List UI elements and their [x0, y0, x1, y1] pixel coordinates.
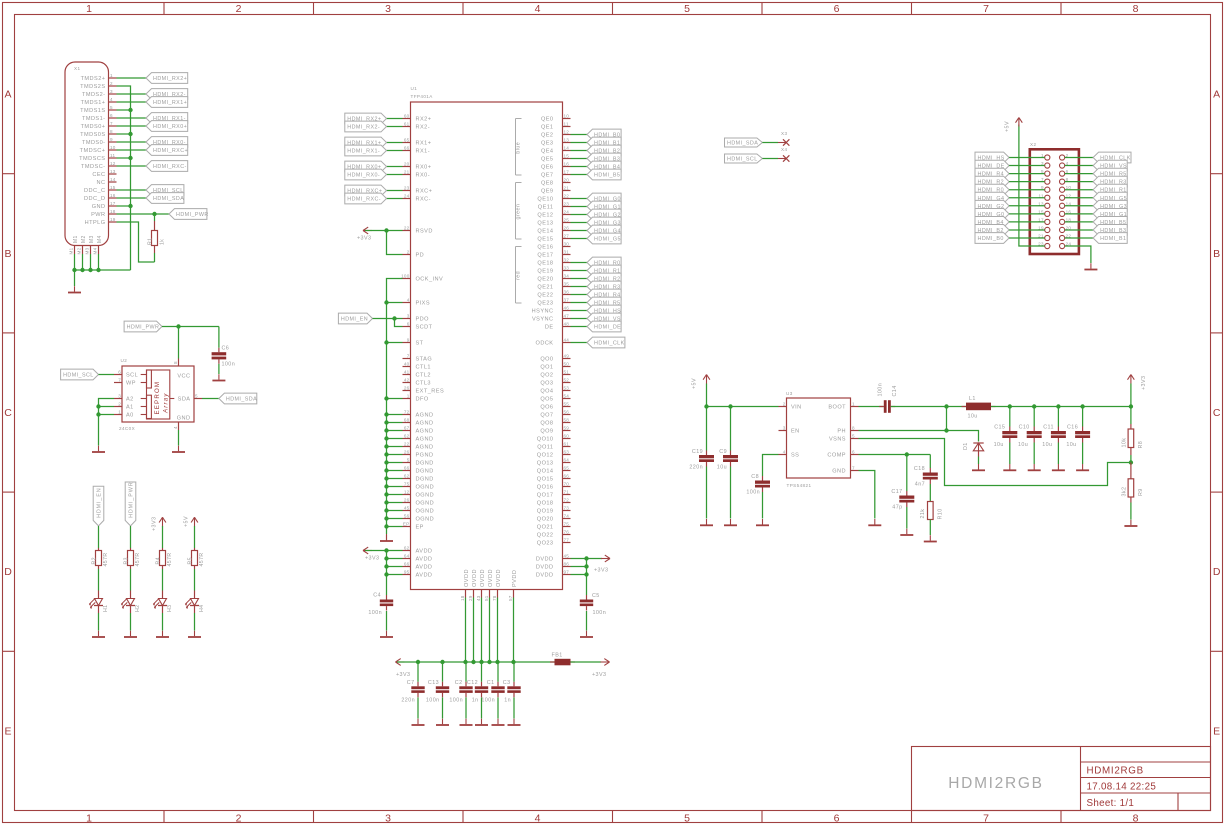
svg-text:1: 1 — [86, 3, 92, 15]
U1 pin 1 DFO — [403, 398, 411, 400]
junction — [1129, 460, 1133, 464]
svg-text:X4: X4 — [781, 147, 787, 152]
U1 pin 23 RXC+ — [403, 190, 411, 192]
+3V3 power arrow — [601, 661, 610, 663]
wire HDMI_RX1- — [117, 117, 147, 119]
svg-text:24: 24 — [404, 194, 410, 199]
wire to +3V3 — [587, 558, 603, 560]
U1 pin 95 AVDD — [403, 574, 411, 576]
ferrite bead FB1 — [550, 661, 555, 663]
X1 pin 17 GND — [109, 205, 117, 207]
wire +3V3 rail — [991, 406, 1131, 408]
junction — [96, 412, 100, 416]
wire HDMI_R1 — [1065, 189, 1093, 191]
svg-text:43: 43 — [476, 595, 481, 601]
junction — [384, 508, 388, 512]
svg-text:C9: C9 — [719, 449, 727, 455]
wire HDMI_RXC- — [387, 198, 403, 200]
net label HDMI_RX0- — [345, 169, 387, 180]
U3 pin 4 SS — [779, 454, 787, 456]
svg-text:7: 7 — [407, 354, 410, 359]
svg-text:DGND: DGND — [416, 477, 434, 483]
wire — [706, 467, 708, 519]
net label HDMI_G0 — [975, 209, 1009, 220]
svg-text:15: 15 — [110, 185, 116, 190]
svg-text:PIXS: PIXS — [416, 301, 431, 307]
wire M1 — [74, 254, 76, 270]
wire — [489, 598, 491, 663]
U1 pin 58 QO8 — [563, 422, 571, 424]
svg-text:5: 5 — [684, 3, 690, 15]
svg-text:C7: C7 — [407, 680, 415, 686]
wire — [906, 455, 908, 492]
wire HDMI_R0 — [1009, 189, 1045, 191]
wire — [1128, 462, 1131, 464]
svg-text:OGND: OGND — [416, 493, 435, 499]
U1 pin 22 AGND — [403, 446, 411, 448]
svg-text:SCL: SCL — [126, 373, 138, 379]
junction — [584, 564, 588, 568]
wire — [387, 486, 403, 488]
svg-text:QE18: QE18 — [537, 261, 553, 267]
wire — [978, 457, 980, 465]
svg-text:SDA: SDA — [178, 397, 191, 403]
wire HDMI_R5 — [571, 302, 588, 304]
wire — [387, 430, 403, 432]
junction — [384, 300, 388, 304]
wire HDMI_RX0+ — [387, 166, 403, 168]
X2 pin 11 pad — [1045, 195, 1050, 200]
+3V3 power arrow — [396, 661, 405, 663]
wire — [1130, 407, 1132, 425]
svg-text:+3V3: +3V3 — [365, 556, 379, 562]
wire HDMI_PWR — [162, 326, 219, 328]
wire HDMI_DE — [1009, 165, 1045, 167]
svg-text:EP: EP — [403, 522, 410, 527]
svg-text:SCDT: SCDT — [416, 325, 433, 331]
X1 pin 3 TMDS2- — [109, 93, 117, 95]
X1 pin 10 TMDSC+ — [109, 149, 117, 151]
junction — [128, 156, 132, 160]
wire HDMI_RX2+ — [387, 118, 403, 120]
wire — [1009, 407, 1011, 427]
wire M4 — [98, 254, 100, 270]
net label HDMI_B3 — [1093, 225, 1127, 236]
X1 pin 6 TMDS1- — [109, 117, 117, 119]
svg-text:66: 66 — [404, 562, 410, 567]
junction — [384, 420, 388, 424]
svg-text:53: 53 — [564, 386, 570, 391]
U1 pin 65 QO14 — [563, 470, 571, 472]
junction — [487, 660, 491, 664]
wire — [513, 662, 515, 682]
wire — [154, 253, 156, 262]
junction — [384, 484, 388, 488]
X1 pin 19 HTPLG — [109, 221, 117, 223]
U1 pin 49 QO0 — [563, 358, 571, 360]
U1 pin 66 AVDD — [403, 566, 411, 568]
svg-text:2: 2 — [110, 81, 113, 86]
svg-text:10u: 10u — [968, 414, 978, 420]
svg-text:R10: R10 — [938, 508, 944, 519]
svg-text:DGND: DGND — [416, 469, 434, 475]
net label HDMI_B4 — [587, 161, 621, 172]
net label HDMI_B2 — [587, 145, 621, 156]
wire HDMI_B2 — [1009, 229, 1045, 231]
wire TMDS0S — [117, 133, 131, 135]
ground H2 — [130, 631, 132, 637]
+5V power arrow — [706, 375, 708, 384]
U1 pin 75 OGND — [403, 486, 411, 488]
wire — [497, 598, 499, 663]
svg-text:B: B — [1213, 248, 1220, 260]
wire HDMI_B5 — [1065, 221, 1093, 223]
svg-text:D1: D1 — [963, 442, 969, 450]
U2 EEPROM array symbol — [147, 370, 170, 419]
wire HDMI_RX1+ — [387, 142, 403, 144]
svg-text:48: 48 — [564, 322, 570, 327]
wire HDMI_B3 — [1065, 229, 1093, 231]
svg-text:100: 100 — [401, 274, 410, 279]
U1 pin 21 QE9 — [563, 190, 571, 192]
svg-text:75: 75 — [404, 482, 410, 487]
wire HDMI_G3 — [571, 222, 588, 224]
junction — [72, 268, 76, 272]
U1 pin 70 QO16 — [563, 486, 571, 488]
X1 pin M3 — [90, 246, 92, 255]
svg-text:17: 17 — [564, 170, 570, 175]
svg-text:HDMI_RXC-: HDMI_RXC- — [153, 164, 187, 170]
wire HDMI_RXC+ — [117, 149, 147, 151]
U1 pin 72 QO18 — [563, 502, 571, 504]
wire HDMI_SDA — [202, 398, 219, 400]
svg-text:AVDD: AVDD — [416, 549, 433, 555]
net label HDMI_B1 — [587, 137, 621, 148]
svg-text:23: 23 — [404, 186, 410, 191]
wire AVDD — [365, 550, 403, 552]
U3 pin 6 COMP — [851, 454, 859, 456]
net label HDMI_R5 — [1093, 168, 1127, 179]
junction — [704, 404, 708, 408]
IC U3 TPS54821 body — [787, 398, 851, 478]
junction — [392, 316, 396, 320]
wire A bus — [99, 399, 115, 446]
svg-text:36: 36 — [564, 290, 570, 295]
svg-text:green: green — [516, 204, 522, 220]
svg-text:QE12: QE12 — [537, 213, 553, 219]
svg-text:76: 76 — [564, 530, 570, 535]
junction — [511, 660, 515, 664]
svg-text:QE1: QE1 — [541, 125, 554, 131]
svg-text:COMP: COMP — [827, 453, 846, 459]
svg-text:QO3: QO3 — [540, 381, 553, 387]
svg-text:66: 66 — [564, 474, 570, 479]
svg-text:+3V3: +3V3 — [592, 672, 606, 678]
junction — [495, 660, 499, 664]
U1 pin 66 RX1- — [403, 150, 411, 152]
svg-text:46: 46 — [564, 306, 570, 311]
ground H3 — [162, 631, 164, 637]
wire — [730, 407, 732, 451]
wire — [99, 406, 115, 408]
wire — [387, 494, 403, 496]
svg-text:RXC+: RXC+ — [416, 189, 433, 195]
svg-text:1: 1 — [110, 73, 113, 78]
svg-text:1: 1 — [852, 402, 855, 407]
svg-text:77: 77 — [564, 538, 570, 543]
svg-text:86: 86 — [564, 562, 570, 567]
X2 pin 4 pad — [1060, 163, 1065, 168]
svg-text:QE20: QE20 — [537, 277, 553, 283]
svg-text:HDMI_G5: HDMI_G5 — [594, 237, 621, 243]
svg-text:21: 21 — [564, 186, 570, 191]
ground C19 — [706, 519, 708, 525]
wire — [98, 613, 100, 631]
svg-text:8: 8 — [852, 426, 855, 431]
svg-text:QE6: QE6 — [541, 165, 554, 171]
U1 pin 24 QE12 — [563, 214, 571, 216]
junction — [1080, 404, 1084, 408]
X1 pin 14 NC — [109, 181, 117, 183]
X2 pin 15 pad — [1045, 211, 1050, 216]
junction — [128, 132, 132, 136]
wire HDMI_G4 — [571, 230, 588, 232]
junction — [80, 268, 84, 272]
junction — [416, 660, 420, 664]
svg-text:DDC_D: DDC_D — [84, 196, 106, 202]
svg-text:HDMI2RGB: HDMI2RGB — [948, 775, 1043, 792]
U1 pin 62 DGND — [403, 478, 411, 480]
connector X2 body — [1030, 149, 1079, 254]
net label HDMI_RXC- — [146, 161, 188, 172]
U1 pin 60 QO10 — [563, 438, 571, 440]
frame row ticks — [3, 173, 15, 175]
svg-text:+3V3: +3V3 — [1141, 376, 1147, 390]
svg-text:22: 22 — [404, 226, 410, 231]
U1 pin 29 OVDD — [473, 590, 475, 598]
X2 pin 3 pad — [1045, 163, 1050, 168]
svg-text:H3: H3 — [167, 605, 173, 612]
svg-text:2: 2 — [783, 402, 786, 407]
net label HDMI_EN — [338, 313, 372, 324]
svg-text:220n: 220n — [401, 698, 415, 704]
wire HDMI_VS — [1065, 165, 1093, 167]
wire HDMI_R1 — [571, 270, 588, 272]
svg-text:RSVD: RSVD — [416, 229, 433, 235]
U1 pin 71 QO17 — [563, 494, 571, 496]
+3V3 power arrow — [162, 517, 164, 526]
net label HDMI_RX2+ — [146, 73, 188, 84]
X2 pin 22 pad — [1060, 235, 1065, 240]
X2 pin 10 pad — [1060, 187, 1065, 192]
svg-text:10: 10 — [110, 145, 116, 150]
svg-text:DVDD: DVDD — [536, 565, 554, 571]
wire — [154, 214, 156, 221]
svg-text:HDMI_RX1+: HDMI_RX1+ — [153, 100, 187, 106]
wire HDMI_DE — [571, 326, 588, 328]
net label HDMI_B3 — [587, 153, 621, 164]
X2 pin 18 pad — [1060, 219, 1065, 224]
svg-text:RX1-: RX1- — [416, 149, 431, 155]
wire HDMI_G0 — [571, 198, 588, 200]
X2 pin 1 pad — [1045, 155, 1050, 160]
X1 pin M4 — [98, 246, 100, 255]
ground C1 — [497, 719, 499, 725]
svg-text:16: 16 — [110, 193, 116, 198]
wire — [762, 142, 778, 144]
wire HDMI_RXC- — [117, 165, 147, 167]
wire PH — [859, 430, 947, 432]
svg-text:C3: C3 — [503, 680, 511, 686]
svg-text:C1: C1 — [487, 680, 495, 686]
wire — [465, 662, 467, 682]
U1 pin 59 QO9 — [563, 430, 571, 432]
svg-text:M2: M2 — [81, 235, 87, 243]
svg-text:M3: M3 — [85, 247, 90, 254]
wire U1 ground bus — [387, 279, 403, 535]
svg-text:HDMI_SDA: HDMI_SDA — [226, 397, 257, 403]
svg-text:ODCK: ODCK — [536, 341, 554, 347]
svg-text:C14: C14 — [892, 385, 898, 396]
wire HDMI_G2 — [1009, 205, 1045, 207]
svg-text:17.08.14 22:25: 17.08.14 22:25 — [1087, 782, 1157, 793]
svg-text:QO17: QO17 — [537, 493, 554, 499]
U1 pin 24 RXC- — [403, 198, 411, 200]
svg-text:A: A — [5, 89, 12, 101]
U1 pin 9 ST — [403, 342, 411, 344]
wire HDMI_B1 — [1065, 237, 1093, 239]
wire — [929, 455, 931, 469]
junction — [96, 268, 100, 272]
svg-text:C17: C17 — [891, 489, 902, 495]
wire M2 — [82, 254, 84, 270]
wire — [730, 467, 732, 519]
svg-text:6: 6 — [407, 322, 410, 327]
net label HDMI_RX2- — [146, 89, 188, 100]
wire — [1130, 384, 1132, 407]
wire — [387, 462, 403, 464]
junction — [128, 204, 132, 208]
wire to SCDT — [395, 319, 403, 327]
X1 pin 11 TMDSCS — [109, 157, 117, 159]
junction — [384, 428, 388, 432]
svg-text:21: 21 — [404, 170, 410, 175]
U1 pin 5 DGND — [403, 462, 411, 464]
svg-text:3: 3 — [407, 314, 410, 319]
svg-text:7: 7 — [118, 378, 121, 383]
svg-text:BOOT: BOOT — [828, 405, 846, 411]
svg-text:35: 35 — [564, 282, 570, 287]
wire HDMI_CLK — [1065, 157, 1093, 159]
wire — [387, 510, 403, 512]
svg-text:RX2-: RX2- — [416, 125, 431, 131]
junction — [384, 452, 388, 456]
svg-text:95: 95 — [404, 570, 410, 575]
net label HDMI_DE — [587, 321, 621, 332]
svg-text:RXC-: RXC- — [416, 197, 431, 203]
svg-text:59: 59 — [564, 426, 570, 431]
svg-text:R5: R5 — [187, 557, 193, 564]
wire — [98, 526, 100, 548]
wire — [194, 569, 196, 591]
net label HDMI_G4 — [975, 192, 1009, 203]
svg-text:TMDS0+: TMDS0+ — [81, 124, 106, 130]
X1 pin 8 TMDS0S — [109, 133, 117, 135]
net label HDMI_R0 — [975, 184, 1009, 195]
svg-text:AVDD: AVDD — [416, 573, 433, 579]
svg-text:100n: 100n — [878, 383, 884, 397]
net label HDMI_RX0+ — [345, 161, 387, 172]
svg-text:C2: C2 — [455, 680, 463, 686]
svg-text:25: 25 — [564, 218, 570, 223]
svg-text:GND: GND — [832, 469, 846, 475]
svg-text:21k: 21k — [920, 509, 926, 519]
wire — [178, 430, 180, 446]
svg-text:AGND: AGND — [416, 421, 434, 427]
U1 pin 43 OVDD — [481, 590, 483, 598]
U1 pin 13 QE3 — [563, 142, 571, 144]
svg-text:HDMI_CLK: HDMI_CLK — [594, 341, 625, 347]
svg-text:18: 18 — [110, 209, 116, 214]
svg-text:HDMI_SCL: HDMI_SCL — [727, 157, 758, 163]
svg-text:FB1: FB1 — [552, 653, 563, 659]
svg-text:3: 3 — [385, 3, 391, 15]
wire AVDD bus — [386, 551, 388, 596]
wire HDMI_PWR — [117, 213, 170, 215]
svg-text:DFO: DFO — [416, 397, 429, 403]
svg-text:4: 4 — [407, 298, 410, 303]
svg-text:71: 71 — [564, 490, 570, 495]
svg-text:8: 8 — [1133, 812, 1139, 824]
ground D1 — [978, 464, 980, 470]
svg-text:+3V3: +3V3 — [594, 568, 608, 574]
wire — [387, 502, 403, 504]
svg-text:QE22: QE22 — [537, 293, 553, 299]
wire HDMI_G0 — [1009, 213, 1045, 215]
net label HDMI_G3 — [587, 217, 621, 228]
U2 pin 3 A2 — [114, 398, 122, 400]
svg-text:DVDD: DVDD — [536, 573, 554, 579]
svg-text:DGND: DGND — [416, 461, 434, 467]
svg-text:65: 65 — [564, 466, 570, 471]
junction — [584, 556, 588, 560]
net label HDMI_RX1- — [146, 113, 188, 124]
svg-text:QO4: QO4 — [540, 389, 553, 395]
U1 pin 15 QE5 — [563, 158, 571, 160]
X1 pin 1 TMDS2+ — [109, 77, 117, 79]
svg-text:12: 12 — [564, 130, 570, 135]
svg-text:DVDD: DVDD — [536, 557, 554, 563]
junction — [384, 412, 388, 416]
svg-text:63: 63 — [564, 450, 570, 455]
U1 pin 66 QO15 — [563, 478, 571, 480]
wire — [946, 407, 948, 431]
svg-text:X2: X2 — [1030, 142, 1036, 147]
net label HDMI_R1 — [587, 265, 621, 276]
U1 pin 45 OGND — [403, 510, 411, 512]
svg-text:3k2: 3k2 — [1122, 487, 1128, 497]
U1 pin 36 QE22 — [563, 294, 571, 296]
svg-text:7: 7 — [983, 812, 989, 824]
svg-text:10u: 10u — [994, 442, 1004, 448]
X2 pin 24 pad — [1060, 243, 1065, 248]
svg-text:78: 78 — [492, 595, 497, 601]
svg-text:OVDD: OVDD — [488, 569, 494, 587]
svg-text:RX0+: RX0+ — [416, 165, 432, 171]
U1 pin 53 QO4 — [563, 390, 571, 392]
wire — [473, 598, 475, 663]
net label HDMI_RX2- — [345, 121, 387, 132]
